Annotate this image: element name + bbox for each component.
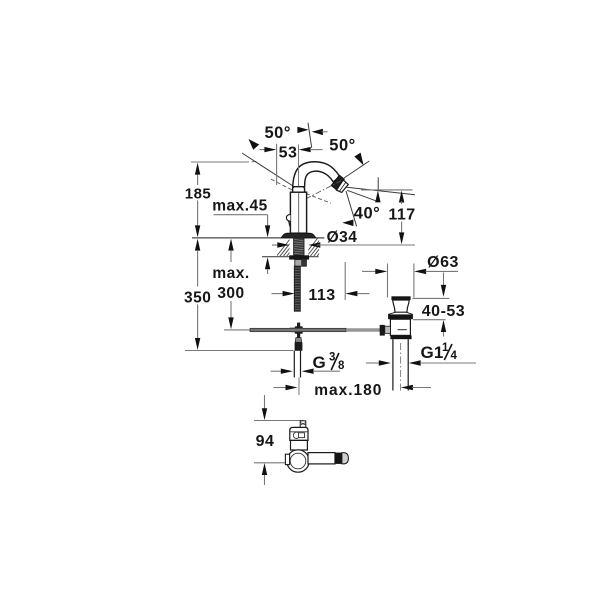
spray axis dash-dot line <box>306 181 342 199</box>
svg-text:40°: 40° <box>354 204 380 222</box>
G3/8 threaded pipe end <box>294 351 300 378</box>
svg-text:Ø63: Ø63 <box>427 254 459 271</box>
pop-up rod joint <box>290 323 303 338</box>
svg-text:G: G <box>313 353 327 372</box>
faucet body <box>290 192 306 233</box>
deck top surface line <box>192 237 324 239</box>
plug top reference line <box>413 297 450 299</box>
spout tube <box>293 162 340 187</box>
dim 113 arrows <box>272 291 370 296</box>
wall union upper body <box>290 427 308 440</box>
drain locknut band <box>390 335 411 339</box>
aerator ring band <box>331 175 344 190</box>
dim 94 top arrow <box>262 395 267 420</box>
valve top reference line <box>254 420 303 422</box>
svg-text:300: 300 <box>217 285 244 302</box>
valve outlet pipe <box>308 453 348 464</box>
dim Ø34 line with inward arrows <box>272 242 415 247</box>
dim 113 right extension line <box>344 262 346 300</box>
top-center tangent arrow right <box>312 129 328 135</box>
svg-text:8: 8 <box>338 360 345 372</box>
left 50deg diagonal ray <box>242 153 293 186</box>
label G3/8 <box>313 352 346 373</box>
dim max.300 vertical with arrows <box>228 239 233 330</box>
40deg ray upper (to 117 ref) <box>347 187 415 194</box>
drain plug extension lines <box>388 264 414 298</box>
dim 53 center extension line <box>298 145 300 192</box>
flexible hose <box>294 266 300 311</box>
svg-text:185: 185 <box>185 185 212 202</box>
right 50deg ray from aerator <box>344 161 369 178</box>
drain pop-up plug cap <box>391 296 410 312</box>
svg-text:53: 53 <box>279 145 298 162</box>
deck hatching right block <box>304 238 338 256</box>
svg-text:113: 113 <box>308 287 335 304</box>
drain flange band <box>388 314 413 319</box>
deck bottom line <box>262 256 319 258</box>
dim 94 bottom arrow <box>262 463 267 485</box>
dim max.45 bracket and arrows <box>214 215 271 274</box>
drain tailpipe <box>393 339 408 391</box>
dim 40-53 upper arrow <box>441 273 446 297</box>
left 50deg arc arrowhead <box>249 139 260 150</box>
top tilted reference line <box>308 123 312 148</box>
lever tilt dash line left <box>271 179 293 190</box>
dim max.180 arrows <box>273 385 431 390</box>
dim 350 vertical with arrows <box>195 239 200 350</box>
drain body <box>390 319 410 335</box>
wall union G3/8 stub <box>300 421 306 428</box>
dim Ø63 arrows <box>362 269 458 274</box>
dim 185 vertical with arrows <box>195 163 200 238</box>
threaded shank through deck <box>294 238 304 256</box>
mounting nut <box>289 255 309 266</box>
horizontal pop-up rod <box>250 328 380 331</box>
svg-text:94: 94 <box>256 433 275 450</box>
dim 185 top reference line <box>191 161 259 164</box>
40deg ray lower <box>347 190 377 201</box>
center extension below pipe <box>298 377 300 395</box>
deck hatching left block <box>277 238 311 256</box>
wall escutcheon circle <box>285 450 309 472</box>
40deg arc arrowhead lower <box>342 220 353 227</box>
svg-text:max.45: max.45 <box>212 198 268 215</box>
max.300 bottom reference line <box>224 329 259 331</box>
svg-text:G1: G1 <box>421 343 444 362</box>
dim 53 arrows <box>260 147 323 152</box>
faucet collar <box>293 187 305 193</box>
117 top reference line <box>361 189 413 191</box>
40deg extension + up arrow at ref <box>375 177 380 202</box>
svg-text:max.180: max.180 <box>314 382 382 399</box>
right 50deg arc arrowhead <box>354 153 363 166</box>
svg-text:4: 4 <box>451 350 458 362</box>
wall union mid body <box>291 440 308 450</box>
svg-text:Ø34: Ø34 <box>327 229 358 246</box>
flange reference line <box>413 319 446 321</box>
pop-up knob on body <box>286 214 290 226</box>
label G1 1/4 <box>421 342 458 362</box>
svg-text:117: 117 <box>388 207 415 224</box>
top-center tangent arrow left <box>297 127 308 133</box>
svg-text:50°: 50° <box>264 124 290 142</box>
svg-text:40-53: 40-53 <box>422 303 465 320</box>
hose end fitting G3/8 nipple <box>295 338 303 351</box>
svg-text:max.: max. <box>212 265 249 282</box>
svg-text:350: 350 <box>184 290 211 307</box>
350 bottom reference line <box>185 350 294 352</box>
40deg down-left ray <box>346 191 357 226</box>
dim 40-53 lower arrow <box>441 320 446 337</box>
valve axis reference line <box>254 462 287 464</box>
dim 117 vertical with arrows <box>399 191 404 245</box>
dim G1 1/4 arrows <box>366 360 476 365</box>
escutcheon base <box>281 233 316 238</box>
svg-text:50°: 50° <box>329 137 355 155</box>
lever tilt dash line right <box>306 194 331 204</box>
aerator tip <box>337 180 349 192</box>
dim 53 left extension line <box>276 144 278 185</box>
dim G3/8 arrows <box>271 369 340 374</box>
rod clamp at drain <box>380 325 391 336</box>
